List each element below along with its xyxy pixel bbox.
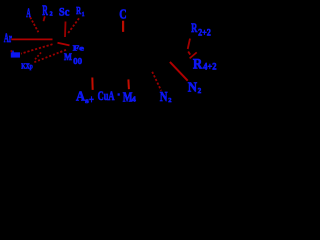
wire lower stem jog	[188, 52, 190, 55]
wire vertical from Sc to hub	[64, 22, 67, 38]
svg-text:4+2: 4+2	[203, 62, 217, 72]
svg-text:2+2: 2+2	[198, 28, 211, 38]
svg-text:A: A	[76, 88, 85, 103]
wire tick above R4+2	[190, 52, 197, 58]
svg-text:1: 1	[82, 11, 85, 18]
wire stem below R2+2	[188, 39, 190, 49]
wire hub-to-Fe slanted segment	[58, 43, 70, 46]
svg-text:CuA: CuA	[98, 89, 115, 103]
wire tick below R2	[44, 16, 45, 21]
node comma mark after CuA	[118, 93, 120, 95]
svg-text:R: R	[191, 21, 198, 35]
wire tick above Sm	[11, 50, 13, 52]
svg-text:Fe: Fe	[73, 44, 84, 52]
node Sm (left blob label)	[11, 52, 20, 57]
svg-text:C: C	[119, 8, 126, 23]
svg-text:2: 2	[198, 86, 202, 95]
wire dashed hub to Sm blob	[21, 44, 53, 53]
svg-text:4: 4	[132, 94, 136, 103]
svg-text:N: N	[160, 89, 168, 104]
svg-text:N: N	[188, 79, 197, 94]
wire vertical above M4	[127, 79, 130, 89]
wire red dot left of M	[60, 51, 62, 52]
svg-text:KXp: KXp	[21, 61, 33, 70]
wire vertical above As-CuA	[91, 78, 93, 90]
wire long horizontal ray	[11, 38, 52, 40]
svg-text:Ar: Ar	[4, 31, 12, 45]
svg-text:Sc: Sc	[59, 5, 70, 19]
svg-text:+: +	[89, 93, 94, 106]
svg-text:M: M	[64, 52, 72, 63]
wire dashed diagonal to N2b	[152, 72, 161, 91]
wire dashed short ray above KXp	[35, 53, 42, 61]
wire dashed from A to hub	[30, 17, 38, 32]
wire long diagonal to N2	[170, 62, 188, 81]
svg-text:oo: oo	[73, 53, 82, 67]
wire vertical bond below C	[122, 21, 124, 32]
wire dashed from R1 to hub	[67, 18, 79, 34]
wire dashed hub to KXp	[34, 50, 67, 63]
svg-text:R: R	[193, 56, 203, 72]
